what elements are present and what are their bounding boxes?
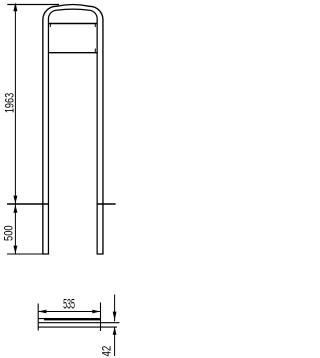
right tube bottom cap <box>97 253 104 255</box>
svg-text:42: 42 <box>100 345 114 356</box>
dim 1963 arrow up <box>13 2 17 11</box>
svg-text:1963: 1963 <box>2 93 16 114</box>
dim 535 arrow right <box>92 310 100 314</box>
plan view bar mid edge + ext line for 42 <box>38 322 119 324</box>
plan view bar top edge <box>38 318 101 320</box>
svg-text:500: 500 <box>2 225 15 241</box>
ground line left segment <box>7 203 48 205</box>
left tube bottom cap <box>42 253 49 255</box>
hoop inner outline <box>48 9 97 254</box>
dim 42 arrow down <box>113 312 117 321</box>
dim 535 line <box>38 311 100 313</box>
dim 535 arrow left <box>38 310 46 314</box>
crossbar top weld tick left <box>49 24 51 27</box>
dim 1963 line <box>14 5 16 205</box>
crossbar bottom edge <box>48 52 97 54</box>
dim 42 arrow up <box>113 327 117 335</box>
dim 42 lower line <box>114 327 116 356</box>
hoop outer outline (front view) <box>43 5 103 254</box>
dim 1963 top extension line <box>7 4 59 6</box>
dim 42 upper line <box>114 295 116 322</box>
dim 535 left extension line <box>37 304 39 331</box>
dim 500 arrow down <box>13 246 17 254</box>
crossbar top weld tick right <box>94 24 96 27</box>
dim 500 arrow up <box>13 205 17 213</box>
dim 500 bottom extension line <box>7 253 43 255</box>
dim 1963 arrow down <box>13 196 17 204</box>
svg-text:535: 535 <box>63 296 75 312</box>
crossbar bottom weld tick right <box>94 49 96 53</box>
crossbar top edge <box>48 23 97 25</box>
dim 500 line <box>14 204 16 254</box>
plan view bar bottom edge + ext line for 42 <box>38 326 117 328</box>
ground line right segment <box>97 203 116 205</box>
dim 535 right extension line <box>100 303 102 332</box>
plan view bar inner edge (thick band) <box>44 318 101 320</box>
